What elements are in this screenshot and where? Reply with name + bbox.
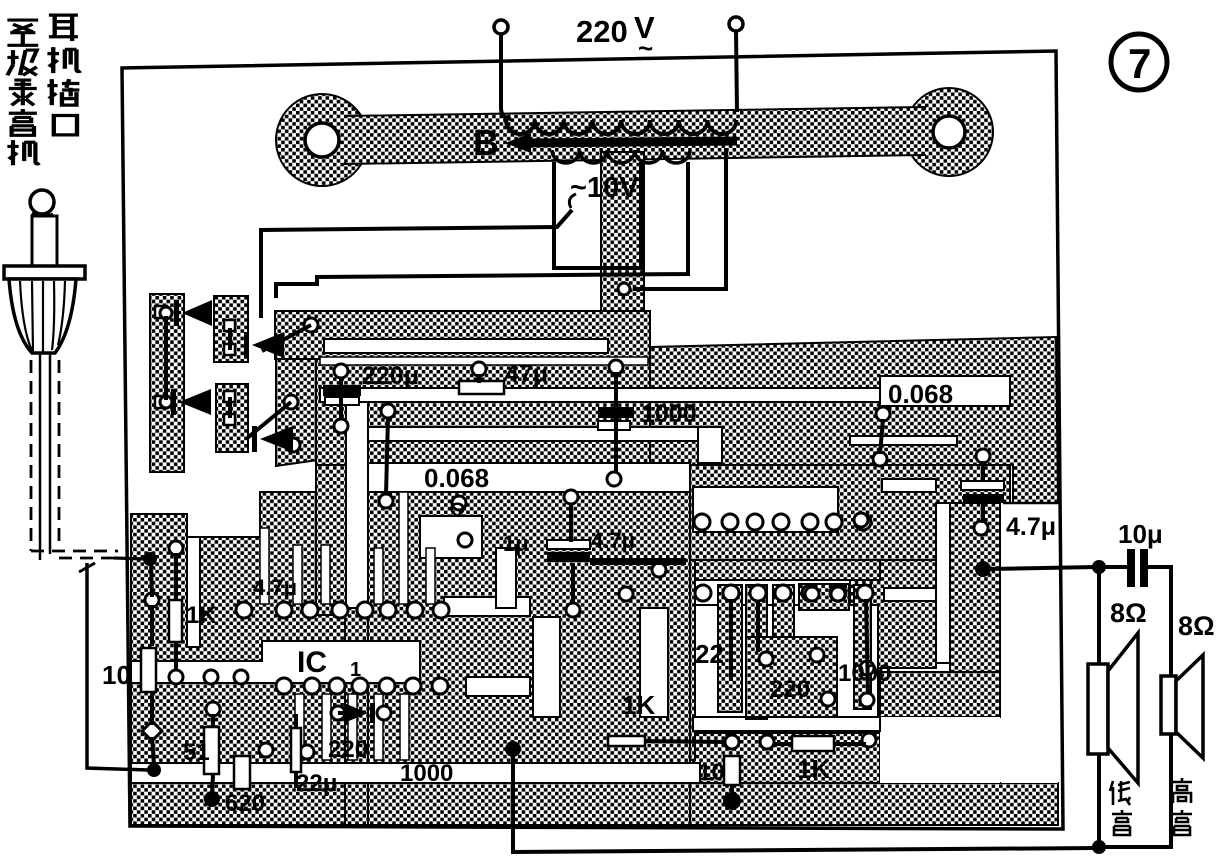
capacitor 10u plate right — [1140, 549, 1148, 587]
resistor 51 body — [204, 727, 219, 774]
notch in IC1 patch upper — [444, 597, 530, 616]
pad res1kr left — [760, 735, 774, 749]
diode D4 cathode bar — [252, 426, 257, 452]
finger slot b3 — [348, 694, 357, 760]
pad mid d — [652, 563, 666, 577]
finger slot a6 — [426, 548, 435, 604]
diode D1 cathode bar — [174, 300, 179, 326]
diode D3 cathode bar — [171, 389, 176, 415]
pad 47u right top — [976, 449, 990, 463]
IC1 white area — [131, 641, 420, 683]
plug flange — [4, 266, 85, 279]
pad res51 top — [206, 702, 220, 716]
solder dot output gnd — [505, 741, 521, 757]
vertical channel right — [698, 427, 722, 463]
svg-text:7: 7 — [1128, 40, 1151, 87]
svg-text:1: 1 — [350, 659, 361, 681]
wire input dot to pad — [151, 563, 152, 597]
channel 0.068 strip — [368, 463, 690, 492]
svg-text:1K: 1K — [797, 754, 830, 784]
speaker tweeter cone — [1176, 655, 1203, 758]
solder dot output — [975, 561, 991, 577]
vslot right of IC1 patch — [533, 617, 560, 717]
trace edge right strip bottom — [1003, 502, 1058, 505]
copper pour: diode trapezoid — [276, 316, 318, 466]
white notch with pad row — [693, 487, 838, 532]
copper pour: left vertical strip — [150, 294, 184, 472]
wire terminal left lead — [501, 34, 511, 119]
transformer secondary winding arcs — [552, 150, 690, 163]
capacitor 1u body — [547, 540, 590, 549]
pad square strip a — [155, 306, 167, 318]
capacitor 1u polarity bar — [547, 552, 590, 562]
copper pour: top right band — [650, 337, 1058, 503]
diode D4 triangle — [260, 426, 293, 452]
slot right block 1 — [882, 479, 936, 492]
pad diamond left — [142, 721, 162, 741]
white under foot — [880, 717, 1000, 783]
copper pour: IC2 finger 1 — [718, 585, 742, 712]
wire right a-b — [880, 419, 883, 454]
wire woofer top lead — [1097, 570, 1101, 666]
channel slot band1 — [324, 339, 608, 353]
copper pour: right blocks — [850, 560, 936, 668]
copper pour: IC2 patch re — [746, 637, 837, 717]
pad 47u right bottom — [974, 521, 988, 535]
wire 47u chain — [477, 374, 481, 383]
transformer core arrow tip — [505, 133, 531, 153]
solder dot res10r — [723, 792, 741, 810]
pad ic2 patch a — [821, 692, 835, 706]
copper pour: IC2 finger 2 re — [746, 585, 767, 719]
pad left row a — [169, 670, 183, 684]
plug ball top — [30, 190, 54, 214]
svg-text:51: 51 — [183, 739, 210, 766]
svg-text:8Ω: 8Ω — [1178, 611, 1215, 641]
pad right col e — [860, 693, 874, 707]
white region 0.068 right — [880, 376, 1010, 406]
copper pour: middle strip — [608, 560, 695, 760]
pad square strip b — [155, 396, 167, 408]
wire res1k right left lead — [773, 742, 792, 746]
plug stem line right — [49, 353, 52, 554]
pad row IC2 — [695, 585, 711, 601]
wire left chain b2 — [174, 643, 178, 671]
svg-text:IC: IC — [297, 646, 327, 679]
wire ic2 f4 chain — [866, 599, 868, 694]
finger slot b2 — [322, 694, 331, 760]
IC2 bottom slot — [693, 717, 880, 731]
pad ic2 patch b — [810, 648, 824, 662]
svg-text:47μ: 47μ — [505, 360, 548, 388]
wire junction to cap — [1102, 565, 1127, 569]
plug ball collar — [32, 213, 53, 216]
svg-text:220: 220 — [328, 736, 368, 763]
text gao-yin tweeter — [1172, 778, 1192, 835]
svg-text:4.7μ: 4.7μ — [1006, 513, 1056, 541]
wire w1 to input — [261, 210, 572, 318]
dashed wire horizontal a — [31, 550, 118, 553]
svg-text:4.7μ: 4.7μ — [253, 575, 297, 600]
transformer lug hole left — [305, 123, 339, 157]
pad left row b — [204, 670, 218, 684]
wire left chain a3 — [152, 737, 154, 764]
copper pour: IC2 finger 3 — [773, 585, 794, 637]
pad bottom row a — [259, 743, 273, 757]
copper pour: right column foot — [880, 672, 1000, 717]
junction dot speaker top — [1092, 560, 1106, 574]
speaker tweeter magnet — [1161, 676, 1176, 734]
wire secondary U1 — [554, 162, 641, 268]
plug stem line left — [39, 353, 42, 560]
svg-text:~: ~ — [638, 33, 653, 63]
finger slot b1 — [295, 694, 304, 760]
text column zhi-shou-lu-yin-ji to recorder — [7, 20, 39, 165]
copper pour: gap filler — [345, 608, 368, 825]
pad strip a — [160, 307, 172, 319]
pad omega — [452, 496, 466, 510]
copper pour: bands 2-4 — [316, 359, 1010, 465]
diode D2 cathode bar — [244, 332, 249, 358]
resistor 1K right body — [792, 736, 834, 751]
pad trap c — [286, 438, 300, 452]
resistor 47u body — [459, 381, 504, 394]
notch mid block — [420, 516, 482, 558]
CARVES — [131, 339, 1058, 783]
pad left row c — [234, 670, 248, 684]
wire res1k right leads — [834, 742, 866, 746]
wire diode diag 1 — [262, 325, 311, 351]
wire secondary U2 — [276, 162, 688, 298]
wire ic2 f1 chain — [729, 599, 733, 681]
vertical channel left of fingers — [346, 402, 368, 608]
svg-text:10: 10 — [102, 660, 131, 690]
wire tweeter bottom lead — [1102, 732, 1171, 847]
pad mid c — [458, 533, 472, 547]
pad IC1 pin row top — [236, 602, 252, 618]
svg-text:620: 620 — [225, 790, 265, 817]
wire diode diag 2 — [246, 402, 291, 439]
wire 1000 chain — [614, 372, 618, 473]
pad left chain b — [169, 541, 183, 555]
wire left strip vertical — [164, 316, 168, 400]
wire res51 bottom — [212, 775, 213, 793]
wire terminal right lead — [736, 31, 737, 112]
wire res51 top — [211, 714, 215, 726]
copper pour: bottom right band — [690, 783, 1058, 825]
pad IC1 pin row bottom — [276, 678, 292, 694]
copper pour: IC2 finger 4 — [854, 585, 871, 709]
pad right col c — [854, 513, 868, 527]
pad ic1 diode right — [377, 706, 391, 720]
pad 220u bottom — [334, 419, 348, 433]
slot left edge — [187, 537, 200, 647]
wire left chain a2 — [150, 692, 154, 725]
diode D1 triangle — [182, 300, 212, 326]
svg-text:22μ: 22μ — [296, 770, 337, 797]
copper pour: diode block upper — [214, 296, 248, 362]
slot in middle strip — [640, 608, 668, 717]
wire ic2 f2 chain — [756, 600, 760, 652]
pad midstrip — [619, 587, 633, 601]
pad square b1 b — [224, 344, 235, 355]
finger slot a4 — [374, 548, 383, 604]
copper pour: center bottom mass — [368, 492, 690, 825]
terminal 220V left — [494, 20, 508, 34]
pad strip b — [160, 396, 172, 408]
wire ground long bottom — [513, 755, 1099, 852]
resistor 10 right body — [724, 756, 740, 785]
copper pour: IC2 square pad block — [799, 584, 849, 610]
transformer primary winding arcs — [506, 120, 736, 134]
capacitor 10u plate left — [1127, 549, 1135, 587]
resistor 620 body — [234, 756, 250, 789]
pad mid a — [381, 404, 395, 418]
resistor 1K mid body — [608, 736, 645, 746]
svg-text:10: 10 — [698, 759, 725, 786]
pad right b — [873, 452, 887, 466]
wire cap to tweeter — [1148, 567, 1171, 678]
pad ic2 square a — [805, 587, 819, 601]
IC2 white background — [695, 605, 878, 733]
svg-text:Ω: Ω — [449, 499, 466, 522]
transformer core bar — [523, 141, 737, 143]
svg-text:B: B — [473, 122, 499, 163]
copper pour: right column — [950, 503, 1000, 717]
pad 220u top — [334, 364, 348, 378]
wire output to speakers — [989, 567, 1096, 569]
svg-text:220: 220 — [770, 676, 810, 703]
copper pour: transformer lug right — [905, 88, 993, 176]
capacitor 220u body — [325, 397, 359, 405]
pad 47u top — [472, 362, 486, 376]
pad mid b — [379, 494, 393, 508]
copper pour: IC2 finger 2 — [746, 585, 767, 719]
diode D2 triangle — [252, 332, 284, 358]
copper pour: mid-left strip — [316, 465, 348, 615]
text column er-ji-cha-kou headphone jack — [47, 15, 80, 135]
wire cap22u bottom — [294, 773, 298, 788]
capacitor 1000 polarity bar — [598, 407, 634, 418]
pad right col f — [862, 733, 876, 747]
channel between band1 band2 — [320, 357, 648, 365]
channel band2-band3 — [320, 388, 1010, 402]
svg-text:1000: 1000 — [838, 660, 891, 687]
diode D3 triangle — [179, 389, 211, 415]
svg-text:1000: 1000 — [641, 400, 697, 428]
pad 1000 bottom — [607, 472, 621, 486]
wire diode block1 — [228, 328, 232, 350]
wire ic1 diode left lead — [338, 711, 344, 715]
figure number circle 7 — [1111, 34, 1167, 90]
copper pour: band 1 — [275, 311, 650, 359]
copper pour: transformer bar — [345, 107, 925, 164]
solder dot 620 — [204, 791, 220, 807]
pad trap b — [284, 395, 298, 409]
pad ic2 square b — [831, 587, 845, 601]
terminal 220V right — [729, 17, 743, 31]
svg-text:~10V: ~10V — [570, 172, 639, 204]
solder dot input — [143, 552, 157, 566]
pad 1000 top — [609, 360, 623, 374]
pad square b1 a — [224, 320, 235, 331]
pad right col d — [860, 661, 874, 675]
copper pour: IC2 finger 4 re — [854, 585, 871, 709]
wire 47u right bottom — [981, 503, 985, 523]
copper pour: column under transformer — [601, 152, 644, 352]
svg-text:10μ: 10μ — [1118, 519, 1163, 549]
finger slot b4 — [374, 694, 383, 760]
junction dot speaker bottom — [1092, 840, 1106, 854]
pad secondary lead — [618, 283, 630, 295]
copper pour: left bottom mass — [131, 492, 345, 825]
svg-text:220: 220 — [576, 14, 628, 49]
pad res10r left — [725, 735, 739, 749]
capacitor 22u body — [291, 728, 301, 772]
wire cap1u chain bottom — [571, 563, 575, 604]
copper pour: lug seam patch left — [340, 118, 374, 162]
finger slot a1 — [260, 528, 269, 604]
pad square b2 b — [224, 414, 235, 425]
slot right block 2 — [884, 588, 936, 601]
dashed wire right vertical — [58, 360, 61, 545]
capacitor 4.7u right polarity bar — [963, 494, 1004, 503]
wire res1k mid lead — [645, 741, 726, 742]
wire 220u chain — [339, 377, 343, 420]
finger slot a2 — [293, 545, 302, 604]
wire secondary w4 — [633, 148, 726, 289]
svg-text:8Ω: 8Ω — [1110, 598, 1147, 628]
pad row right mid — [694, 514, 710, 530]
copper pour: diode block lower — [216, 384, 248, 452]
finger slot a3 — [321, 545, 330, 604]
copper pour: IC2 finger 3 re — [773, 585, 794, 637]
capacitor 1000 body — [598, 421, 630, 430]
PADS — [142, 283, 990, 759]
svg-text:4.7μ: 4.7μ — [591, 528, 635, 553]
pad left chain a — [145, 593, 159, 607]
wire mid chain a — [386, 417, 388, 495]
pad cap1u bottom — [566, 603, 580, 617]
dashed wire left vertical — [30, 360, 33, 551]
copper pour: IC2 top band — [690, 560, 880, 580]
svg-text:1000: 1000 — [400, 760, 453, 787]
plug bell ribs — [20, 281, 65, 352]
vslot mid — [496, 548, 516, 608]
wire plug ground down — [87, 563, 148, 770]
transformer lug hole right — [933, 116, 965, 148]
pad bottom row b — [300, 745, 314, 759]
pad right a — [876, 407, 890, 421]
speaker woofer magnet — [1088, 664, 1108, 754]
capacitor 220u polarity bar — [323, 385, 361, 396]
copper pour: transformer lug left — [276, 94, 368, 186]
copper pour: IC2 bottom band — [693, 731, 880, 783]
diode IC1 cathode bar — [370, 703, 375, 723]
wire dashes to input dot — [114, 558, 146, 559]
MASSES — [131, 88, 1058, 825]
white region right column lower — [1001, 503, 1058, 783]
diode IC1 triangle — [344, 703, 368, 723]
pad trap a — [304, 318, 318, 332]
board outline — [122, 51, 1063, 829]
svg-text:0.068: 0.068 — [888, 379, 953, 409]
wire woofer bottom lead — [1097, 752, 1101, 845]
wire plug ground tick — [79, 563, 95, 572]
pad square b2 a — [224, 391, 235, 402]
svg-text:220μ: 220μ — [362, 362, 419, 390]
svg-text:1μ: 1μ — [503, 531, 529, 556]
wire cap1u chain top — [569, 503, 573, 542]
svg-text:0.068: 0.068 — [424, 463, 489, 493]
svg-text:22: 22 — [695, 639, 724, 669]
copper pour: IC2 square pad block re — [799, 584, 849, 610]
wire diode block2 — [228, 397, 232, 418]
plug neck — [32, 216, 57, 268]
finger slot a5 — [399, 492, 408, 604]
capacitor 4.7u right body — [961, 481, 1004, 490]
dashed wire horizontal b — [59, 557, 118, 560]
text di-yin woofer — [1110, 781, 1132, 835]
notch in IC1 patch lower — [466, 677, 530, 696]
wire squiggle lead — [569, 194, 576, 208]
svg-text:1K: 1K — [622, 690, 655, 720]
copper pour: lug seam patch right — [892, 110, 936, 154]
channel right short — [850, 436, 957, 445]
pad cap1u top — [564, 490, 578, 504]
svg-text:1K: 1K — [186, 602, 217, 629]
resistor 10 left body — [141, 648, 156, 692]
pad ic2 patch c — [759, 652, 773, 666]
speaker woofer cone — [1108, 633, 1138, 783]
solder dot input2 — [147, 763, 161, 777]
trace heavy bar mid — [590, 558, 686, 565]
plug bell body — [9, 279, 76, 353]
vertical channel beside right column — [936, 503, 950, 663]
copper pour: IC2 patch — [746, 637, 837, 717]
bottom white channel — [131, 763, 700, 783]
copper pour: IC2 finger 1 re — [718, 585, 742, 712]
wire left chain a1 — [150, 605, 154, 646]
resistor 1K left body — [169, 600, 182, 642]
pad ic1 diode left — [331, 706, 345, 720]
finger slot b5 — [400, 694, 409, 760]
channel band3-band4 — [368, 427, 698, 441]
copper pour: right mid mass — [690, 465, 1010, 560]
wire cap22u top — [294, 714, 298, 727]
wire left chain b1 — [174, 553, 178, 599]
wire 47u right top — [981, 461, 985, 482]
wire res10 right bottom — [730, 784, 734, 797]
